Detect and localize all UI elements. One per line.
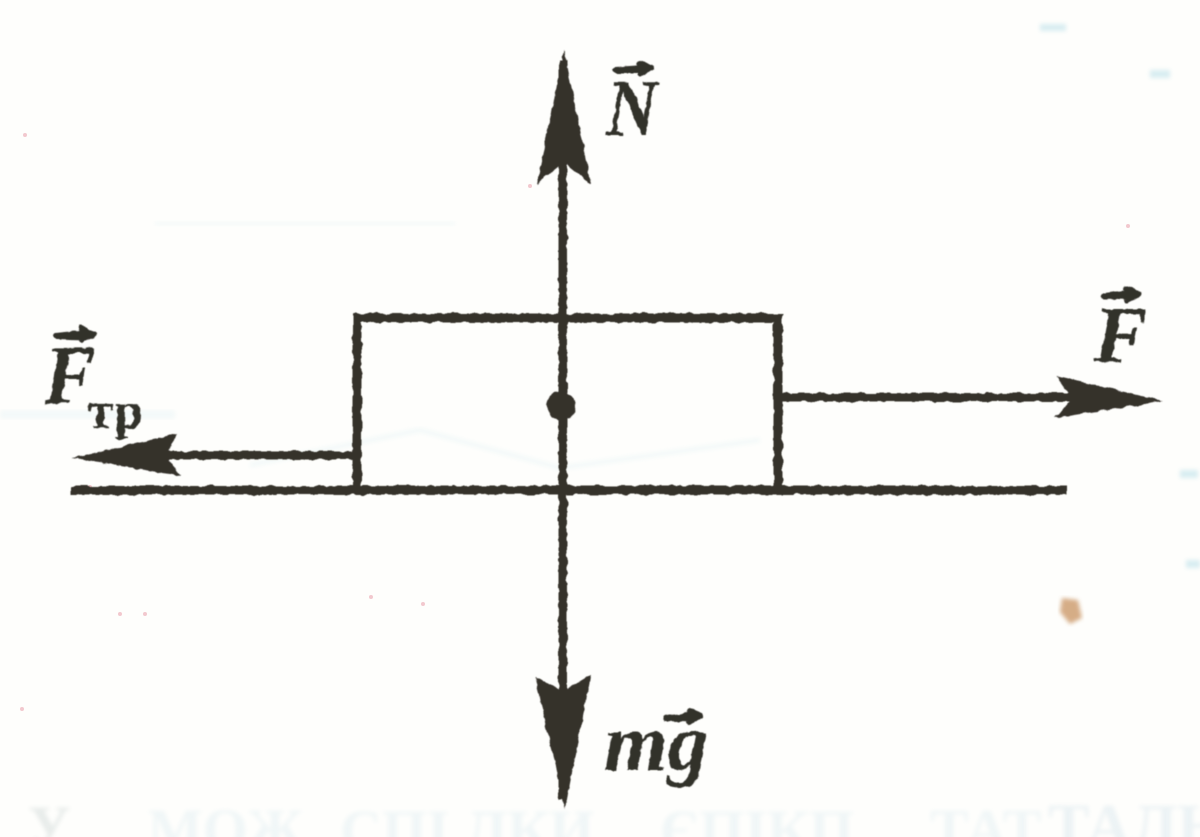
normal force arrowhead N (up)	[537, 50, 591, 184]
orange speck	[1060, 598, 1082, 624]
vector arrow over g	[666, 711, 701, 722]
vector bar over F	[1104, 289, 1139, 300]
faint showthrough mark inside block	[250, 430, 760, 468]
faint scan streak upper	[155, 221, 455, 226]
friction force wire	[160, 451, 357, 460]
svg-text:N: N	[605, 65, 661, 153]
cyan edge specks	[1040, 24, 1200, 568]
applied force F wire	[778, 393, 1075, 402]
svg-text:МОЖ: МОЖ	[148, 797, 304, 837]
center-of-mass dot	[547, 392, 576, 421]
applied force F arrowhead (right)	[1055, 376, 1163, 418]
svg-text:ТАТ: ТАТ	[930, 797, 1041, 837]
svg-text:F: F	[1093, 292, 1147, 380]
pink scan specks	[20, 133, 1130, 711]
svg-text:СПІ ЛКИ: СПІ ЛКИ	[340, 798, 594, 837]
ghost show-through text at bottom	[28, 793, 1200, 837]
vertical axis wire (N / mg line)	[559, 60, 568, 800]
faint scan streak left of block	[0, 410, 175, 419]
friction force arrowhead (left)	[72, 434, 181, 476]
svg-text:ЄПІКП: ЄПІКП	[660, 798, 854, 837]
svg-text:ТАЛЮ: ТАЛЮ	[1048, 793, 1200, 837]
vector bar over N	[616, 63, 652, 74]
ground line	[71, 486, 1067, 495]
vector arrow over F_tr	[56, 328, 93, 340]
block (body on surface)	[357, 318, 778, 490]
svg-text:У: У	[28, 794, 71, 837]
gravity arrowhead mg (down)	[535, 675, 591, 809]
svg-text:тр: тр	[88, 383, 143, 440]
